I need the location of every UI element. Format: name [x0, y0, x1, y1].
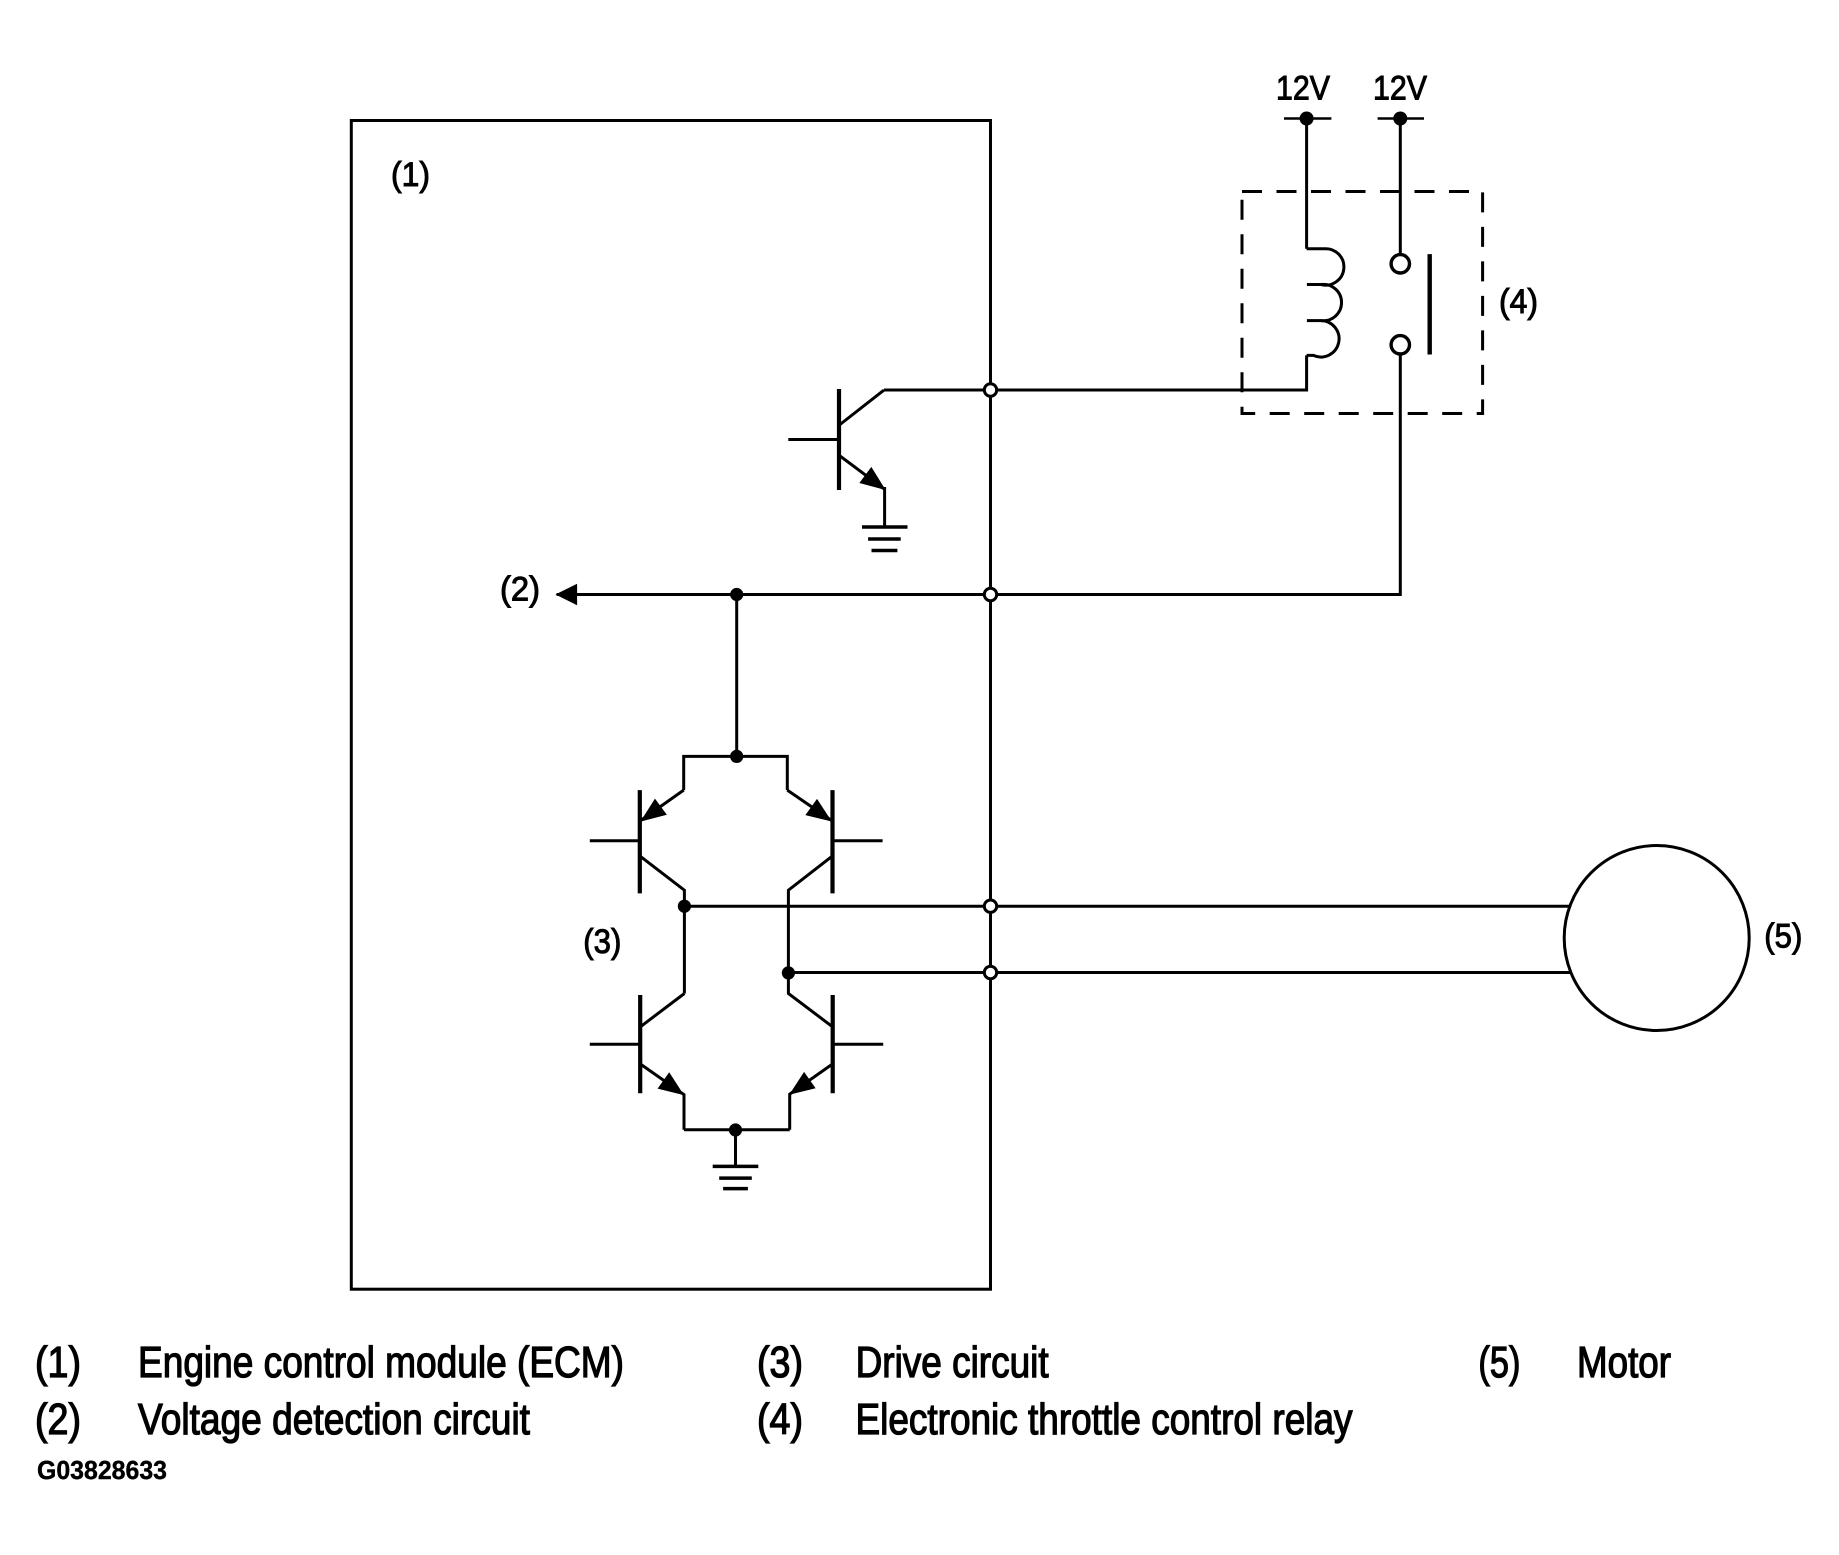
svg-text:(4): (4) [1499, 283, 1538, 321]
junction dot node A [730, 588, 743, 601]
transistor Q1 base lead wire [788, 438, 839, 441]
wire 12V left to relay coil [1305, 119, 1308, 249]
relay contact top [1391, 255, 1409, 273]
svg-text:(3): (3) [583, 923, 621, 961]
junction dot H-bridge top [730, 750, 743, 763]
transistor Q1 collector lead [840, 390, 884, 424]
relay contact bottom [1391, 336, 1409, 354]
svg-text:G03828633: G03828633 [37, 1457, 167, 1485]
svg-text:(2): (2) [35, 1395, 81, 1444]
svg-text:12V: 12V [1373, 70, 1427, 108]
transistor Q3 emitter lead [787, 790, 832, 821]
svg-text:Motor: Motor [1577, 1338, 1671, 1387]
transistor Q4 emitter arrow [658, 1073, 683, 1094]
arrow to voltage detection circuit [557, 585, 577, 605]
ECM box U1 (engine control module) [351, 121, 990, 1290]
svg-text:(5): (5) [1478, 1338, 1520, 1387]
node terminal circle on ECM border (coil wire) [984, 384, 996, 396]
ground GND1 [862, 527, 908, 551]
junction dot node C (right mid) [782, 966, 795, 979]
wire Q1 collector to relay coil [884, 355, 1307, 390]
ground GND2 [713, 1166, 759, 1188]
transistor Q5 emitter arrow [790, 1073, 815, 1094]
relay K1 dashed box [1242, 192, 1483, 414]
svg-text:Drive circuit: Drive circuit [856, 1338, 1049, 1387]
wire bottom rail to ground [734, 1130, 737, 1166]
transistor Q3 bar (upper right) [830, 790, 834, 893]
transistor Q4 emitter lead [640, 1064, 684, 1130]
motor M1 [1564, 846, 1749, 1031]
transistor Q1 emitter arrow [860, 468, 884, 490]
junction dot H-bridge bottom [729, 1123, 742, 1136]
svg-text:(1): (1) [391, 156, 430, 194]
node terminal circle on ECM border (motor wire 2) [984, 966, 996, 978]
transistor Q2 emitter arrow [642, 800, 667, 821]
wire Q1 emitter to ground [883, 487, 886, 527]
relay coil tick 2 [1307, 319, 1323, 322]
wire 12V right to relay contact [1399, 119, 1402, 256]
transistor Q3 emitter arrow [806, 800, 831, 821]
transistor Q3 base lead [833, 839, 883, 842]
transistor Q3 collector lead [788, 856, 832, 973]
svg-text:Electronic throttle control re: Electronic throttle control relay [856, 1395, 1353, 1444]
wire node A to H-bridge top [735, 595, 738, 757]
junction dot node B (left mid) [678, 900, 691, 913]
H-bridge top rail wire [684, 756, 788, 790]
transistor Q2 base lead [590, 839, 640, 842]
transistor Q4 base lead [590, 1043, 640, 1046]
transistor Q5 emitter lead [790, 1064, 833, 1130]
transistor Q2 bar (upper left) [638, 790, 642, 893]
transistor Q2 collector lead [640, 856, 685, 906]
transistor Q1 base bar [837, 389, 841, 490]
transistor Q5 collector lead [788, 973, 832, 1027]
wire node B down [683, 906, 686, 993]
svg-text:(3): (3) [757, 1338, 803, 1387]
relay switch blade [1427, 254, 1431, 354]
relay coil L1 [1307, 249, 1344, 357]
node terminal circle on ECM border (detection wire) [984, 588, 996, 600]
svg-text:Voltage detection circuit: Voltage detection circuit [138, 1395, 530, 1444]
transistor Q4 bar (lower left) [638, 995, 642, 1093]
svg-text:(2): (2) [500, 571, 540, 609]
svg-text:(1): (1) [35, 1338, 81, 1387]
wire relay contact down to node 2 row [557, 354, 1401, 595]
transistor Q1 emitter lead [840, 456, 885, 489]
relay coil tick 1 [1307, 283, 1323, 286]
wire node B to motor [684, 905, 1570, 908]
H-bridge bottom rail wire [684, 1128, 790, 1131]
12V terminal right (dot and tick) [1378, 112, 1424, 126]
node terminal circle on ECM border (motor wire 1) [984, 900, 996, 912]
svg-text:12V: 12V [1276, 70, 1330, 108]
svg-text:(5): (5) [1764, 918, 1802, 956]
svg-text:Engine control module (ECM): Engine control module (ECM) [138, 1338, 624, 1387]
transistor Q5 base lead [833, 1043, 884, 1046]
12V terminal left (dot and tick) [1284, 112, 1331, 126]
svg-text:(4): (4) [757, 1395, 803, 1444]
transistor Q2 emitter lead [640, 790, 684, 821]
wire node C to motor [788, 971, 1571, 974]
transistor Q5 bar (lower right) [831, 995, 835, 1093]
transistor Q4 collector lead [640, 994, 684, 1027]
